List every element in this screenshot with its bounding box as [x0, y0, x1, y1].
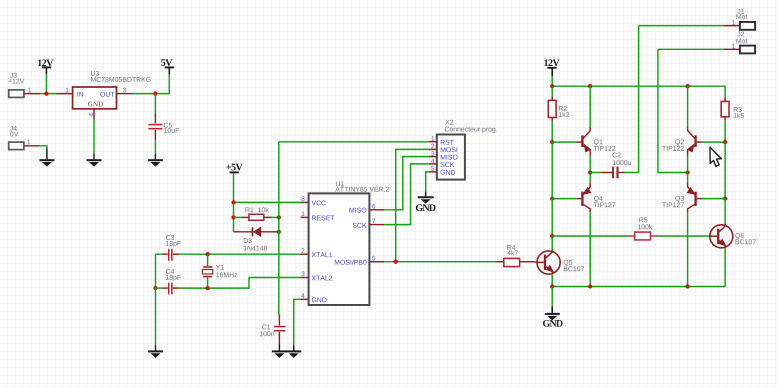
- wire RST long run to X2: [279, 141, 429, 143]
- wire Q3 base to column: [702, 198, 726, 200]
- transistor Q3 TIP127 (mirrored): [662, 183, 701, 212]
- transistor Q1 TIP122: [576, 127, 615, 156]
- node gnd bus / Q4: [588, 284, 592, 288]
- node R5 / left column: [550, 234, 554, 238]
- wire J3 to U3: [40, 93, 57, 95]
- wire +5V column: [233, 173, 235, 232]
- node junction OUT/C5: [153, 91, 157, 95]
- wire R3 column Q2-Q3: [724, 142, 726, 199]
- wire 12V drop: [45, 74, 47, 94]
- wire 12V to bus: [551, 76, 553, 86]
- pin 1 RST: [429, 141, 437, 143]
- connector J4: [9, 126, 40, 150]
- wire column to Q6 collector: [724, 199, 726, 224]
- wire left column C3-C4: [155, 254, 157, 288]
- wire Q6 base from R5: [710, 235, 712, 237]
- wire C5 to ground: [154, 140, 156, 154]
- IC U1 ATTINY85: [301, 181, 390, 305]
- wire XTAL1 row left: [156, 253, 163, 255]
- wire Q1 base: [552, 141, 576, 143]
- wire left column Q1-Q4-R5: [551, 142, 553, 236]
- resistor R5 100k: [552, 217, 710, 239]
- wire C4 row left: [156, 287, 163, 289]
- node +5V/R1: [231, 215, 235, 219]
- diode D3 1N4148: [234, 227, 279, 250]
- wire Q1 emitter down: [589, 156, 591, 173]
- wire Q4 base: [552, 198, 576, 200]
- wire U3 GND pin to ground: [93, 120, 95, 154]
- wire J1 net vertical: [638, 26, 640, 173]
- wire Q5 emitter to gnd bus: [551, 274, 553, 286]
- capacitor C4 18pF: [166, 269, 181, 294]
- wire Q2 collector to bus: [687, 86, 689, 126]
- pin 3 XTAL2: [301, 277, 309, 279]
- pin 1 RESET: [301, 216, 309, 218]
- connector X2 Connecteur prog.: [429, 120, 497, 180]
- transistor Q2 TIP122 (mirrored): [662, 127, 701, 156]
- wire C4 row to XTAL2 jog: [173, 287, 180, 289]
- ground (under C5): [148, 160, 163, 166]
- wire RESET column (RST to D3): [278, 142, 280, 232]
- node bus/Q1 collector: [588, 84, 592, 88]
- wire C1 column: [278, 232, 280, 315]
- node Y1 bottom: [205, 286, 209, 290]
- capacitor C3 18pF: [166, 235, 181, 261]
- transistor Q6 BC107: [710, 224, 756, 248]
- crystal Y1 16MHz: [202, 254, 237, 288]
- wire J4 to ground: [40, 146, 47, 149]
- regulator U3 MC78M05BDTRKG: [57, 71, 151, 120]
- wire Q1 collector to bus: [589, 86, 591, 126]
- transistor Q4 TIP127: [576, 183, 615, 212]
- capacitor C2 1000u: [590, 153, 638, 179]
- pin 5 MOSI/PB0: [369, 261, 384, 263]
- wire GND bus: [552, 286, 725, 288]
- wire C1 to ground: [278, 345, 280, 351]
- node R2/Q1 base: [550, 140, 554, 144]
- wire X2 GND to ground: [426, 172, 429, 192]
- pin 7 SCK: [369, 224, 384, 226]
- ground GND (under X2): [416, 197, 436, 211]
- node bus/R2: [550, 84, 554, 88]
- resistor R3 1k5: [721, 86, 744, 142]
- node gnd bus / Q3: [685, 284, 689, 288]
- wire C5 top: [154, 94, 156, 113]
- wire Q5 collector: [551, 236, 553, 251]
- node Q1 emitter / C2 row: [588, 170, 592, 174]
- resistor R1: [234, 207, 279, 220]
- wire left column to ground: [155, 288, 157, 345]
- mouse cursor: [710, 147, 721, 166]
- wire MISO net: [384, 157, 429, 210]
- wire Q3 collector up: [687, 173, 689, 184]
- capacitor C1 100n: [260, 315, 286, 345]
- wire SCK net: [384, 164, 429, 225]
- connector J2 Mot: [724, 31, 755, 53]
- node Q2 emitter / J2 / Q3: [685, 170, 689, 174]
- wire Q4 collector up: [589, 173, 591, 184]
- resistor R2 1k2: [548, 86, 569, 142]
- wire MOSI net: [384, 261, 496, 263]
- node Q4 base / left column: [550, 196, 554, 200]
- wire Q4 emitter to gnd bus: [589, 212, 591, 286]
- wire J2 row: [658, 48, 724, 50]
- wire 12V bus: [552, 85, 725, 87]
- node junction 12V/J3: [44, 91, 48, 95]
- wire J2 net vertical: [658, 49, 688, 172]
- pin 3 MISO: [429, 156, 437, 158]
- node bus/Q2 collector: [685, 84, 689, 88]
- node +5V/VCC: [231, 200, 235, 204]
- supply 12V (left): [38, 59, 53, 74]
- ground (U1 GND): [286, 351, 301, 358]
- node XTAL1/Y1: [205, 252, 209, 256]
- transistor Q5 BC107: [536, 251, 585, 275]
- wire Q2 base to R3 column: [702, 141, 726, 143]
- pin 8 VCC: [301, 201, 309, 203]
- node gnd bus / Q5: [550, 284, 554, 288]
- resistor R4 4k7: [497, 245, 536, 266]
- wire J1 row: [639, 25, 724, 27]
- ground (under J4): [39, 160, 54, 166]
- pin 4 SCK: [429, 163, 437, 165]
- pin 5 GND: [429, 171, 437, 173]
- capacitor C5: [148, 113, 179, 140]
- connector J1 Mot: [724, 9, 755, 30]
- pin 2 MOSI: [429, 148, 437, 150]
- wire XTAL1 row right: [173, 253, 180, 255]
- supply 12V (right): [544, 59, 559, 76]
- wire Q3 emitter to gnd bus: [687, 212, 689, 286]
- wire Q6 emitter to gnd bus: [724, 248, 726, 286]
- node C4 row / left column: [153, 286, 157, 290]
- supply 5V: [161, 59, 174, 74]
- pin 2 XTAL1: [301, 253, 309, 255]
- wire VCC row: [234, 201, 301, 203]
- node R3/Q2 base: [723, 140, 727, 144]
- ground (under U3): [87, 160, 102, 166]
- pin 6 MISO: [369, 209, 384, 211]
- wire U3 OUT to 5V corner: [133, 74, 170, 94]
- pin 4 GND: [301, 298, 309, 300]
- node MOSI junction: [394, 260, 398, 264]
- wire gnd bus to ground: [551, 287, 553, 307]
- wire Q2 emitter down: [687, 156, 689, 173]
- node Q3 base / column: [723, 196, 727, 200]
- ground GND (right section): [543, 307, 563, 327]
- node R1/RESET: [277, 215, 281, 219]
- ground (left column): [148, 351, 163, 358]
- ground (under C1): [272, 351, 287, 358]
- node D3/RESET column: [277, 230, 281, 234]
- wire U1 GND to ground: [294, 299, 301, 345]
- connector J3: [8, 73, 40, 98]
- supply +5V: [226, 164, 242, 173]
